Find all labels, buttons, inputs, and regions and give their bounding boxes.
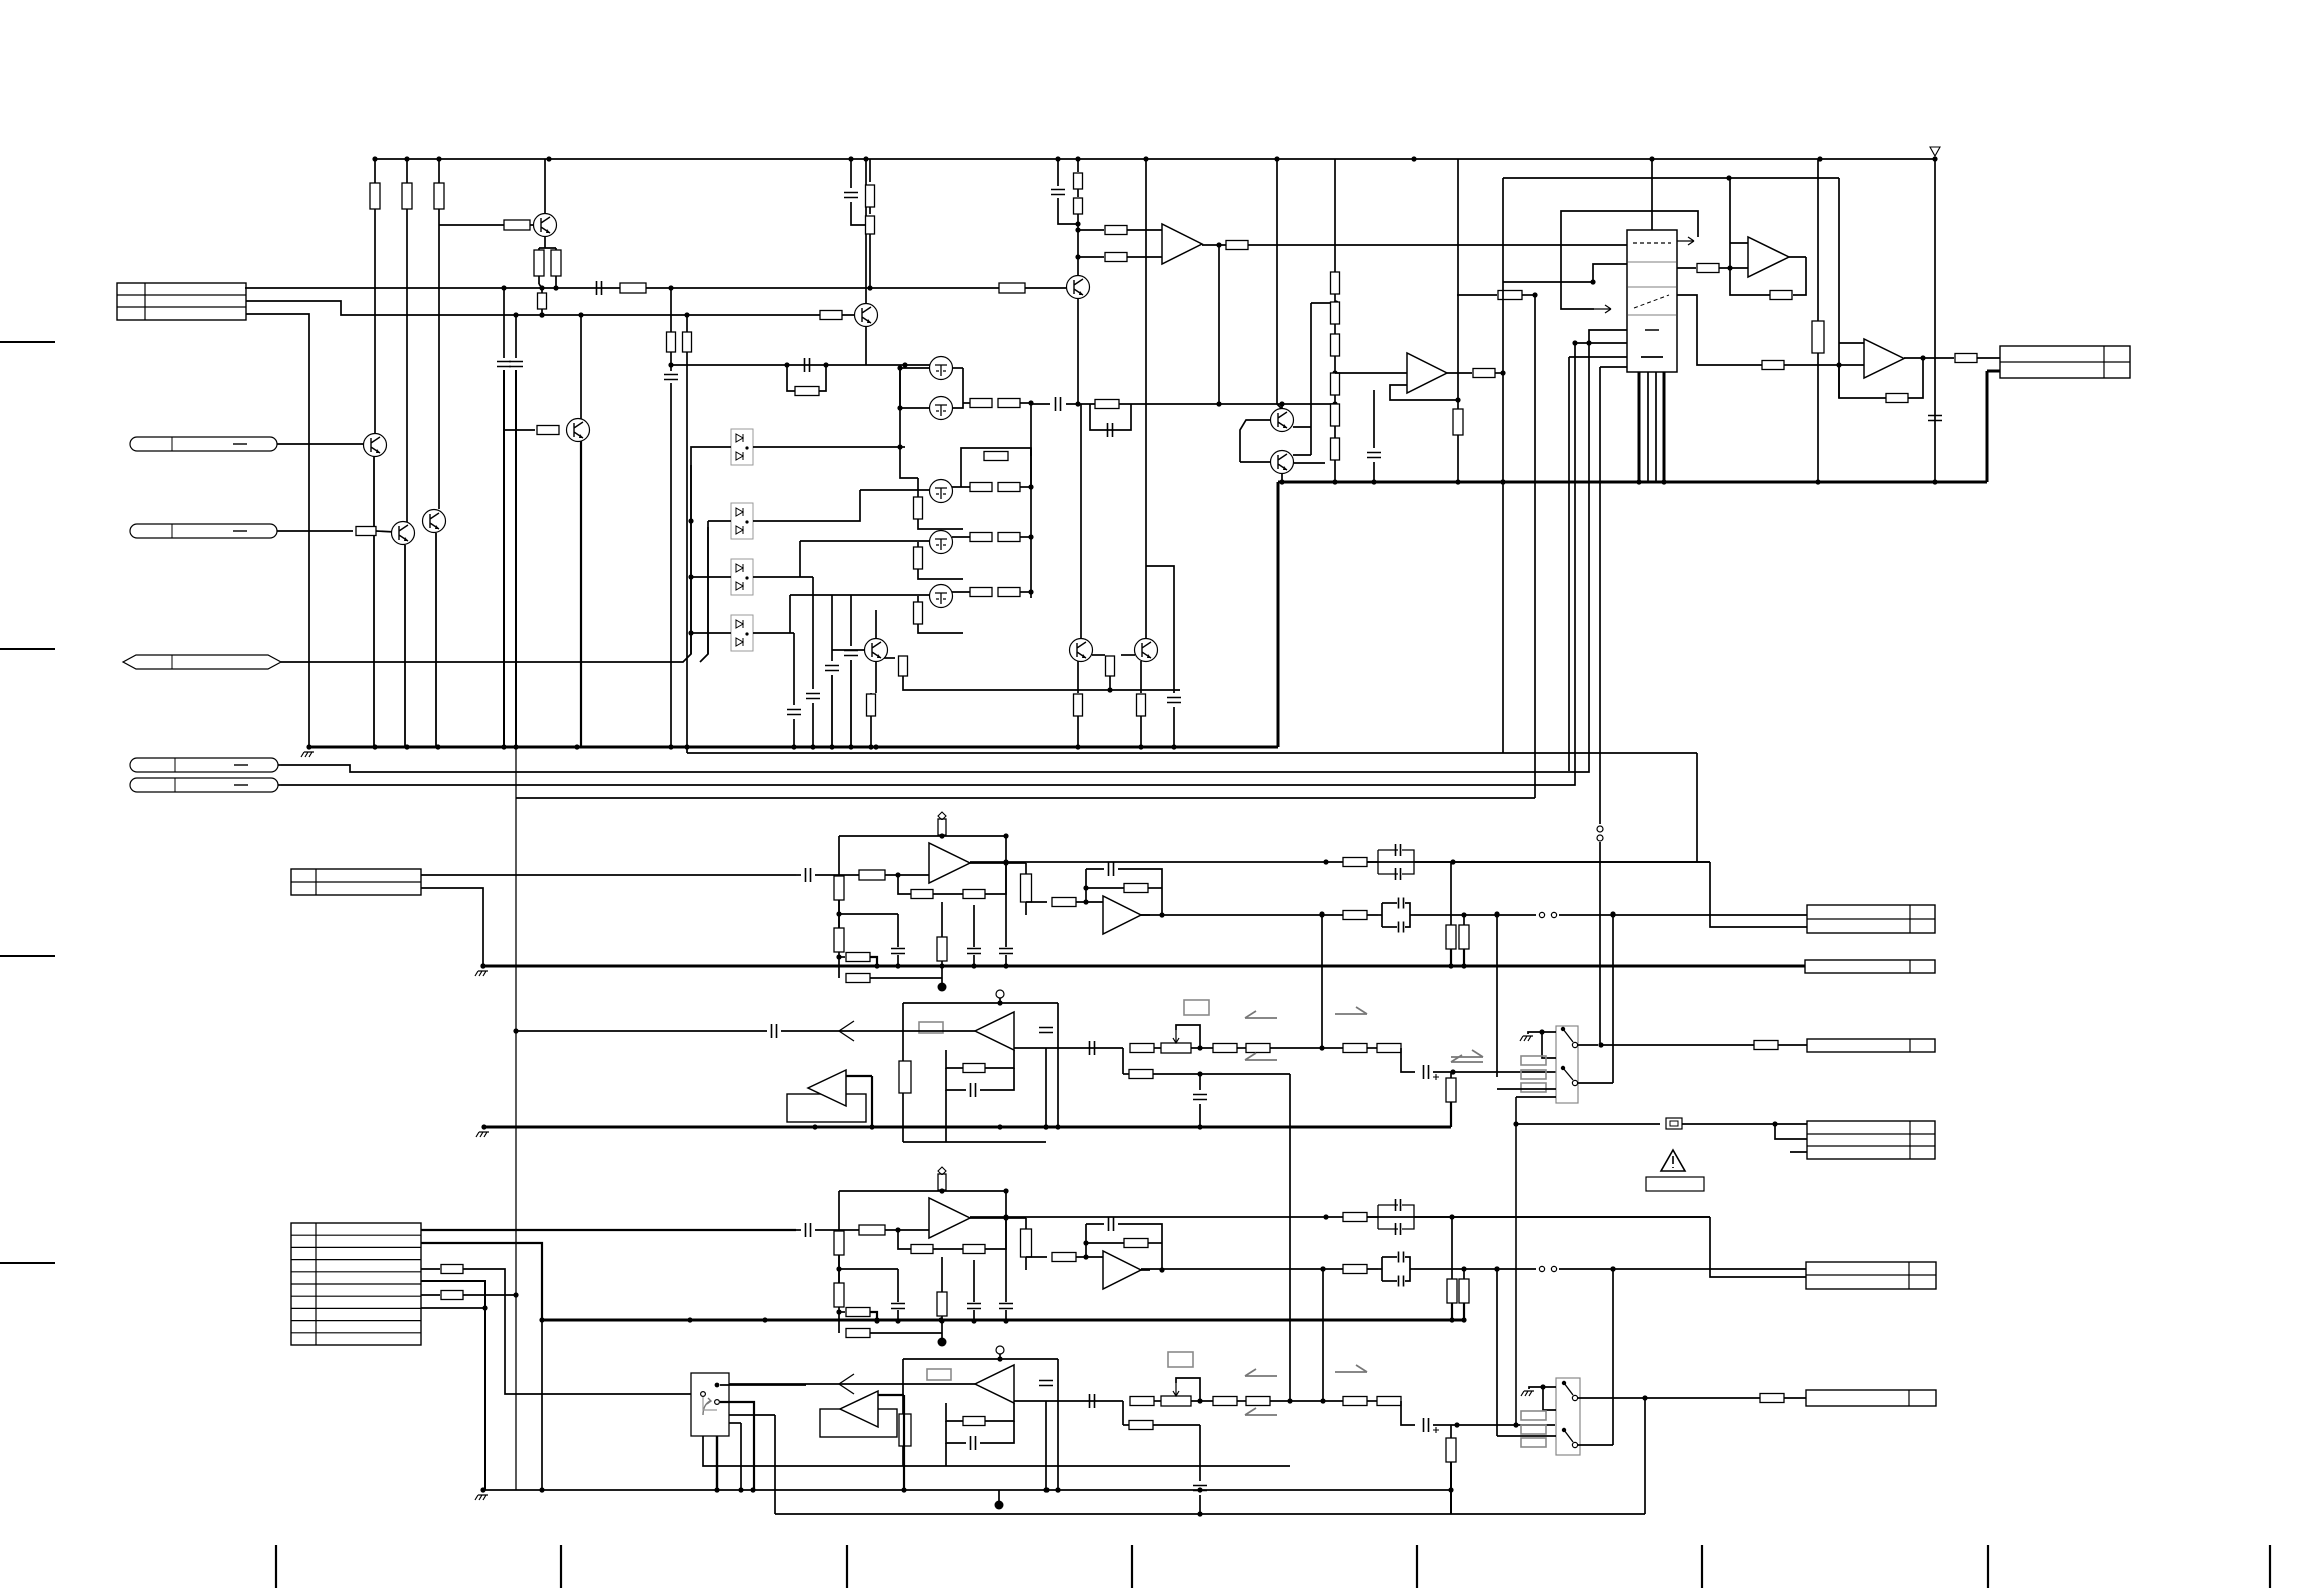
wire Q5 emitter [435,533,437,747]
gray arrow b1 [1245,1369,1277,1376]
node U3 out [1216,242,1221,247]
wire line2 res drops [1450,862,1452,925]
wire D2 right [753,490,860,521]
connector CN12 [1807,1121,1935,1159]
node line2 ch2 bus [1449,1317,1454,1322]
wire y772 line P4a [281,367,1589,772]
fuse F1 [1666,1118,1682,1129]
wire pb1 fb [946,1050,963,1068]
wire R9 to Q4 [376,531,395,532]
capacitor C5 [806,694,820,699]
resistor RlbB [834,1283,844,1307]
wire CN5b out [278,784,281,786]
wire s2 in2 B [1076,1256,1103,1258]
node sw2 gnd [1540,1384,1545,1389]
wire sw2 gnd [1529,1387,1556,1389]
wire x851 low [851,202,870,225]
wire supply stub B [941,1174,943,1175]
resistor R34 [866,185,875,207]
node r29 [1107,687,1112,692]
wire Q15 emitter [865,326,867,365]
wire supply right drop [1934,159,1936,482]
wire Q7 base row [900,446,905,448]
resistor R55 tall [899,1061,911,1093]
wire q16 row [1270,403,1335,405]
pb2 left vertical [902,1359,904,1466]
wire rec1 f [1401,1048,1415,1072]
resistor RlcA [846,953,870,962]
wire Q17 out [1294,462,1325,464]
resistor R4 [504,220,530,230]
resistor R30 [1074,694,1083,716]
wire x1497 stub [1497,1088,1556,1090]
wire Q11 collector [875,610,877,639]
wire U3 input1b [1127,229,1162,231]
wire top supply bus [374,158,1935,160]
wire Q15 base [687,314,854,316]
wire Q16-Q17 link [1293,426,1311,428]
wire C5 down [812,703,814,747]
wire rec2 to switch [1516,1424,1555,1426]
line2 contacts [1539,912,1544,917]
wire sw1 out1 b [1601,1044,1754,1046]
wire rg A [941,902,943,937]
wire CN8 row2 thick [421,1243,542,1320]
wire res col low [1077,214,1079,275]
node q7 base [897,444,902,449]
wire u5 out [1904,357,1954,359]
node x1497 ch2 top [1494,1266,1499,1271]
capacitor C12 [844,193,858,198]
node sw1 out1 [1598,1042,1603,1047]
resistor RgB [937,1292,947,1316]
wire ladder top [1334,270,1336,272]
wire stage2 in B [1006,1217,1026,1219]
wire Q8 out [952,486,970,488]
ic U2 outline [1627,230,1677,372]
node line1 ch2 dots [1003,1214,1008,1219]
wire x1323 vertical ch2 [1322,1269,1324,1401]
ground G2 [1520,1036,1533,1041]
wire stage2 in A [1006,862,1026,864]
wire fb row B [898,1230,911,1249]
wire line1 ch2 [970,1216,1710,1218]
ic U2 gray row2 [1628,286,1676,288]
resistor R20 parallel loop [961,448,1031,456]
wire x687 continue [686,365,688,747]
wire R86 links [541,288,543,293]
node u6 out B [1003,1215,1008,1220]
wire left tap row A [839,913,898,915]
wire Q14 emitter [1077,298,1079,404]
switch SW1 contact1 [1561,1027,1565,1031]
resistor RsB [938,1174,946,1190]
node bus2 dots [481,1124,486,1129]
ground bus4 [483,1489,1452,1491]
wire R6 to node [555,276,557,288]
supply circle pb1 [996,990,1004,998]
resistor RtA [1021,874,1032,902]
resistor R7 [620,283,646,293]
wire x1503 vertical [1502,178,1504,753]
wire drop x813 [812,577,814,689]
resistor R32 [999,283,1025,293]
capacitor Cg2A [967,949,981,954]
capacitor C3 [509,362,523,367]
node fb B [1159,1267,1164,1272]
wire rec2 g [1433,1424,1516,1426]
resistor R48 [1762,361,1784,370]
fet Q10 [930,585,953,608]
wire ladder m1 [1334,294,1336,302]
wire Q1 emitter [544,236,546,248]
wire pb2 out right [1014,1400,1123,1402]
capacitor pair CP2 [1378,902,1414,928]
wire line2 ch1 [1141,914,1536,916]
capacitor C9 [1056,397,1061,411]
node cn12 [1772,1121,1777,1126]
connector CN4 arrow pill [123,655,281,669]
resistor R21 [914,547,923,569]
wire u5 fb loop [1908,358,1923,398]
node rec2 x1290 [1287,1398,1292,1403]
node blockA rail [939,833,944,838]
node left bus A [836,954,841,959]
wire x1290 vertical [1289,1074,1291,1401]
wire rec1 lower cap [1199,1074,1201,1090]
resistor RlbA [834,928,844,952]
wire x1600 vertical lower [1599,842,1601,1045]
supply diamond B [938,1167,946,1175]
wire Q1 collector [544,159,546,214]
node sw2 out1 [1642,1395,1647,1400]
blockA top rail [839,835,1006,837]
resistor R78 [1343,1213,1367,1222]
resistor R39 [1331,334,1340,356]
wire Q9 out [952,536,970,538]
node u1 out [1500,370,1505,375]
wire R29 down [1109,676,1111,690]
wire sw3 left pin2 [703,1436,1290,1466]
wire R21 links [917,542,919,547]
node x1031 d4 [1028,589,1033,594]
wire Q12 emitter base [1092,654,1105,656]
wire rec1 vertical left [1122,1048,1124,1074]
resistor RfbA [963,890,985,899]
resistor R60 [1377,1044,1401,1053]
node cn7 x483 [480,963,485,968]
wire x900 span [899,368,901,447]
capacitor ClgB [891,1304,905,1309]
wire R17 links [917,478,919,497]
resistor R83 [1074,198,1083,214]
op-amp U5 [1864,339,1904,378]
resistor R40 [1331,373,1340,395]
switch SW1 box [1556,1026,1578,1103]
switch SW3 contact2 [701,1392,706,1397]
wire s2 link A [1026,901,1047,903]
wire s2 in2 A [1076,901,1103,903]
wire rec1 wiper loop [1176,1025,1200,1048]
wire drop x516 lower [515,370,517,747]
capacitor C2 [497,362,511,367]
node blockB rail [939,1188,944,1193]
capacitor C26 [1051,190,1065,195]
wire loop links [960,456,962,487]
wire left mid B [838,1255,840,1283]
capacitor C18 [1193,1095,1207,1100]
capacitor C17 polar [1424,1065,1429,1079]
resistor R9 [356,527,376,536]
node ladder tap [1332,370,1337,375]
wire x687 below bus [686,747,688,753]
wire x1613 vertical ch2 [1612,1269,1614,1445]
wire Q7 out row [963,402,970,404]
resistor R69 tall [899,1414,911,1446]
wire c24 down [1199,1495,1201,1514]
wire IC pin343 [1575,342,1627,344]
node row8 join [482,1305,487,1310]
wire x870 low [869,234,871,288]
wire pb1 bottom [903,1141,1046,1143]
wire to x1031 [1020,402,1031,404]
node rec2 x1323 [1320,1398,1325,1403]
node ladder 303 [1333,300,1338,305]
node pb2 rail [997,1356,1002,1361]
wire x542 to bus4 [541,1320,543,1490]
wire sw2 out1 [1578,1397,1633,1399]
node U3 drop low [1216,401,1221,406]
wire cn12 feed [1516,1123,1660,1125]
wire rec1 a [1154,1047,1161,1049]
cap pair ch1 line1 [1367,861,1378,863]
wire CN2 out [277,443,364,445]
wire Q1 base [439,224,533,226]
wire U3 input2b [1127,256,1162,258]
node mid bus dots [1500,479,1505,484]
wire pb2 fb [946,1403,963,1421]
wire IC small loop [1503,264,1627,282]
node rec1 cap [1450,1069,1455,1074]
resistor R62 vert [1446,1078,1456,1102]
wire cn12 row3 stub [1790,1151,1807,1153]
line2 ch2 contacts [1539,1266,1544,1271]
wire below bus B [838,1321,840,1333]
transistor Q17 [1271,451,1294,474]
ic U2 top loop [1561,211,1698,264]
wire U1 out to x1503 [1495,372,1503,374]
resistor R38 [1331,302,1340,324]
switch SW2 contact1 [1562,1381,1566,1385]
ground bus2 [484,1126,1451,1129]
wire r76 [1450,1425,1452,1438]
wire Q11 emitter [884,657,895,659]
node q16c [1279,401,1284,406]
node x1031 d3 [1028,534,1033,539]
wire u5 in [1784,364,1864,366]
switch SW1 contact2 [1561,1066,1565,1070]
wire pb2 supply stem [999,1354,1001,1359]
resistor R23 [998,533,1020,542]
node in A [895,872,900,877]
wire Q11 down [875,661,877,693]
resistor R1 [370,183,380,209]
wire Q15 collector [865,159,867,304]
warning label box [1646,1177,1704,1191]
resistor R82 [1074,173,1083,189]
wire rec1 c [1270,1047,1322,1049]
wire elbow B [839,1311,845,1313]
test point TPA [938,983,947,992]
capacitor pair CP4 [1378,1256,1414,1282]
resistor R44 [1453,409,1463,435]
connector CN2 mic pill [130,437,277,451]
wire thick riser to mid bus [1277,482,1280,747]
wire u4 fb left [1729,178,1731,268]
connector CN13 [1806,1262,1936,1289]
resistor R79 vert [1447,1279,1457,1303]
wire tall res low B [1025,1257,1027,1270]
resistor R50 [1886,394,1908,403]
node left B [836,1266,841,1271]
wire res col mid [1077,189,1079,197]
wire U3 out drop [1218,245,1220,404]
resistor R75 [1129,1421,1153,1430]
wire pb1 fbcap [946,1068,966,1090]
resistor R10 [667,332,676,352]
wire Q3 emitter [373,457,375,747]
resistor R12 [795,387,819,396]
ic U2 arrow out [1677,237,1694,245]
resistor R76 vert [1446,1438,1456,1462]
ic U2 dashed row [1633,242,1671,244]
node x1613 ch2 top [1610,1266,1615,1271]
wire input B [815,1229,859,1231]
wire Q9 gate [800,540,930,542]
resistor R16 [1095,400,1119,409]
gray label LB2 [1184,1000,1209,1015]
node res col [1075,221,1080,226]
wire fb row A [898,875,911,894]
wire x1645 down [1644,1398,1646,1514]
wire rec2 f [1401,1401,1415,1425]
resistor R65b [1343,911,1367,920]
wire pb2 fbcap [946,1421,966,1443]
pot VR1 [1161,1043,1191,1053]
wire x1600 vertical upper [1599,367,1601,824]
wire line1 ch2 jog [1452,1216,1710,1218]
wire U1 output [1447,372,1472,374]
op-amp U6A [929,843,970,883]
wire rec2 vertical left [1122,1401,1124,1425]
wire R27 down [903,676,1180,690]
wire clg B [897,1269,899,1302]
resistor R8 [537,426,559,435]
wire Q10 to x1031 [1020,591,1031,593]
transistor Q15 [855,304,878,327]
wire C7 down [850,660,852,747]
wire sw2 out1 b [1633,1397,1760,1399]
resistor R2inA [1052,898,1076,907]
resistor R56 [1130,1044,1154,1053]
wire cn12 feed2 [1682,1123,1807,1125]
supply diamond A [938,812,946,820]
wire q17 emitter [1281,473,1283,482]
resistor R63 [1754,1041,1778,1050]
wire rg B [941,1257,943,1292]
blockB left vertical [838,1191,840,1303]
wire rec2 wiper loop [1176,1378,1200,1401]
wire clg A [897,914,899,947]
wire pb2 right verticals [1045,1401,1047,1490]
resistor R43 [1473,369,1495,378]
node pb1 rail [997,1000,1002,1005]
node x1516 ties [1513,1121,1518,1126]
resistor R52 [441,1265,463,1274]
capacitor C15 [1039,1028,1053,1033]
wire U1 feedback [1390,385,1458,400]
wire fb res A [1086,887,1124,889]
resistor R20 [984,452,1008,461]
wire D1 left pin [691,447,731,465]
resistor R33 [820,311,842,320]
wire y295 line [1457,294,1497,296]
wire Q2 emitter [580,441,582,747]
wire x1569 down [1568,357,1570,771]
wire fb cap B [1086,1223,1104,1225]
node left A [836,911,841,916]
connector CN9 [1807,905,1935,933]
wire x1311 to ladder [1311,302,1336,304]
wire R5 to node [538,276,540,284]
resistor R86 [538,293,547,309]
wire x1322 vertical [1321,914,1323,1048]
wire cg2 A [973,905,975,947]
wire x1535 drop to bottom [1534,295,1536,798]
gray label LB4 [1168,1352,1193,1367]
wire CN8 row7b [463,1294,516,1296]
capacitor C24 [1193,1486,1207,1491]
wire x870 mid [869,207,871,214]
wire line1 ch1 [970,861,1710,863]
resistor RlaB [834,1231,844,1255]
wire Q11 base [832,649,864,651]
resistor R78b [1343,1265,1367,1274]
wire rec1 b [1237,1047,1246,1049]
wire ladder bottom [1334,460,1336,482]
wire Q10 gate [790,594,930,596]
wire cg3 B [1005,1191,1007,1302]
capacitor C22 [1090,1394,1095,1408]
wire IC pin357 [1569,356,1627,358]
wire sw3 gray link [703,1397,717,1410]
wire drop x504 lower [503,370,505,747]
wire Q2 base [504,429,535,431]
wire below bus2 A [870,977,942,979]
wire CN8 row8 [421,1307,485,1309]
resistor Rf2A [1124,884,1148,893]
node x1497 top [1494,911,1499,916]
wire rec2 b [1237,1400,1246,1402]
wire D1 right to FET area [753,446,900,448]
node row7 join [513,1292,518,1297]
wire sw3 out mid [720,1402,754,1490]
capacitor C25 [1928,416,1942,421]
resistor R85 [1105,253,1127,262]
node x1818 bus [1815,479,1820,484]
gray arrow a2 [1335,1007,1367,1014]
gray arrow b3 [1245,1408,1277,1415]
